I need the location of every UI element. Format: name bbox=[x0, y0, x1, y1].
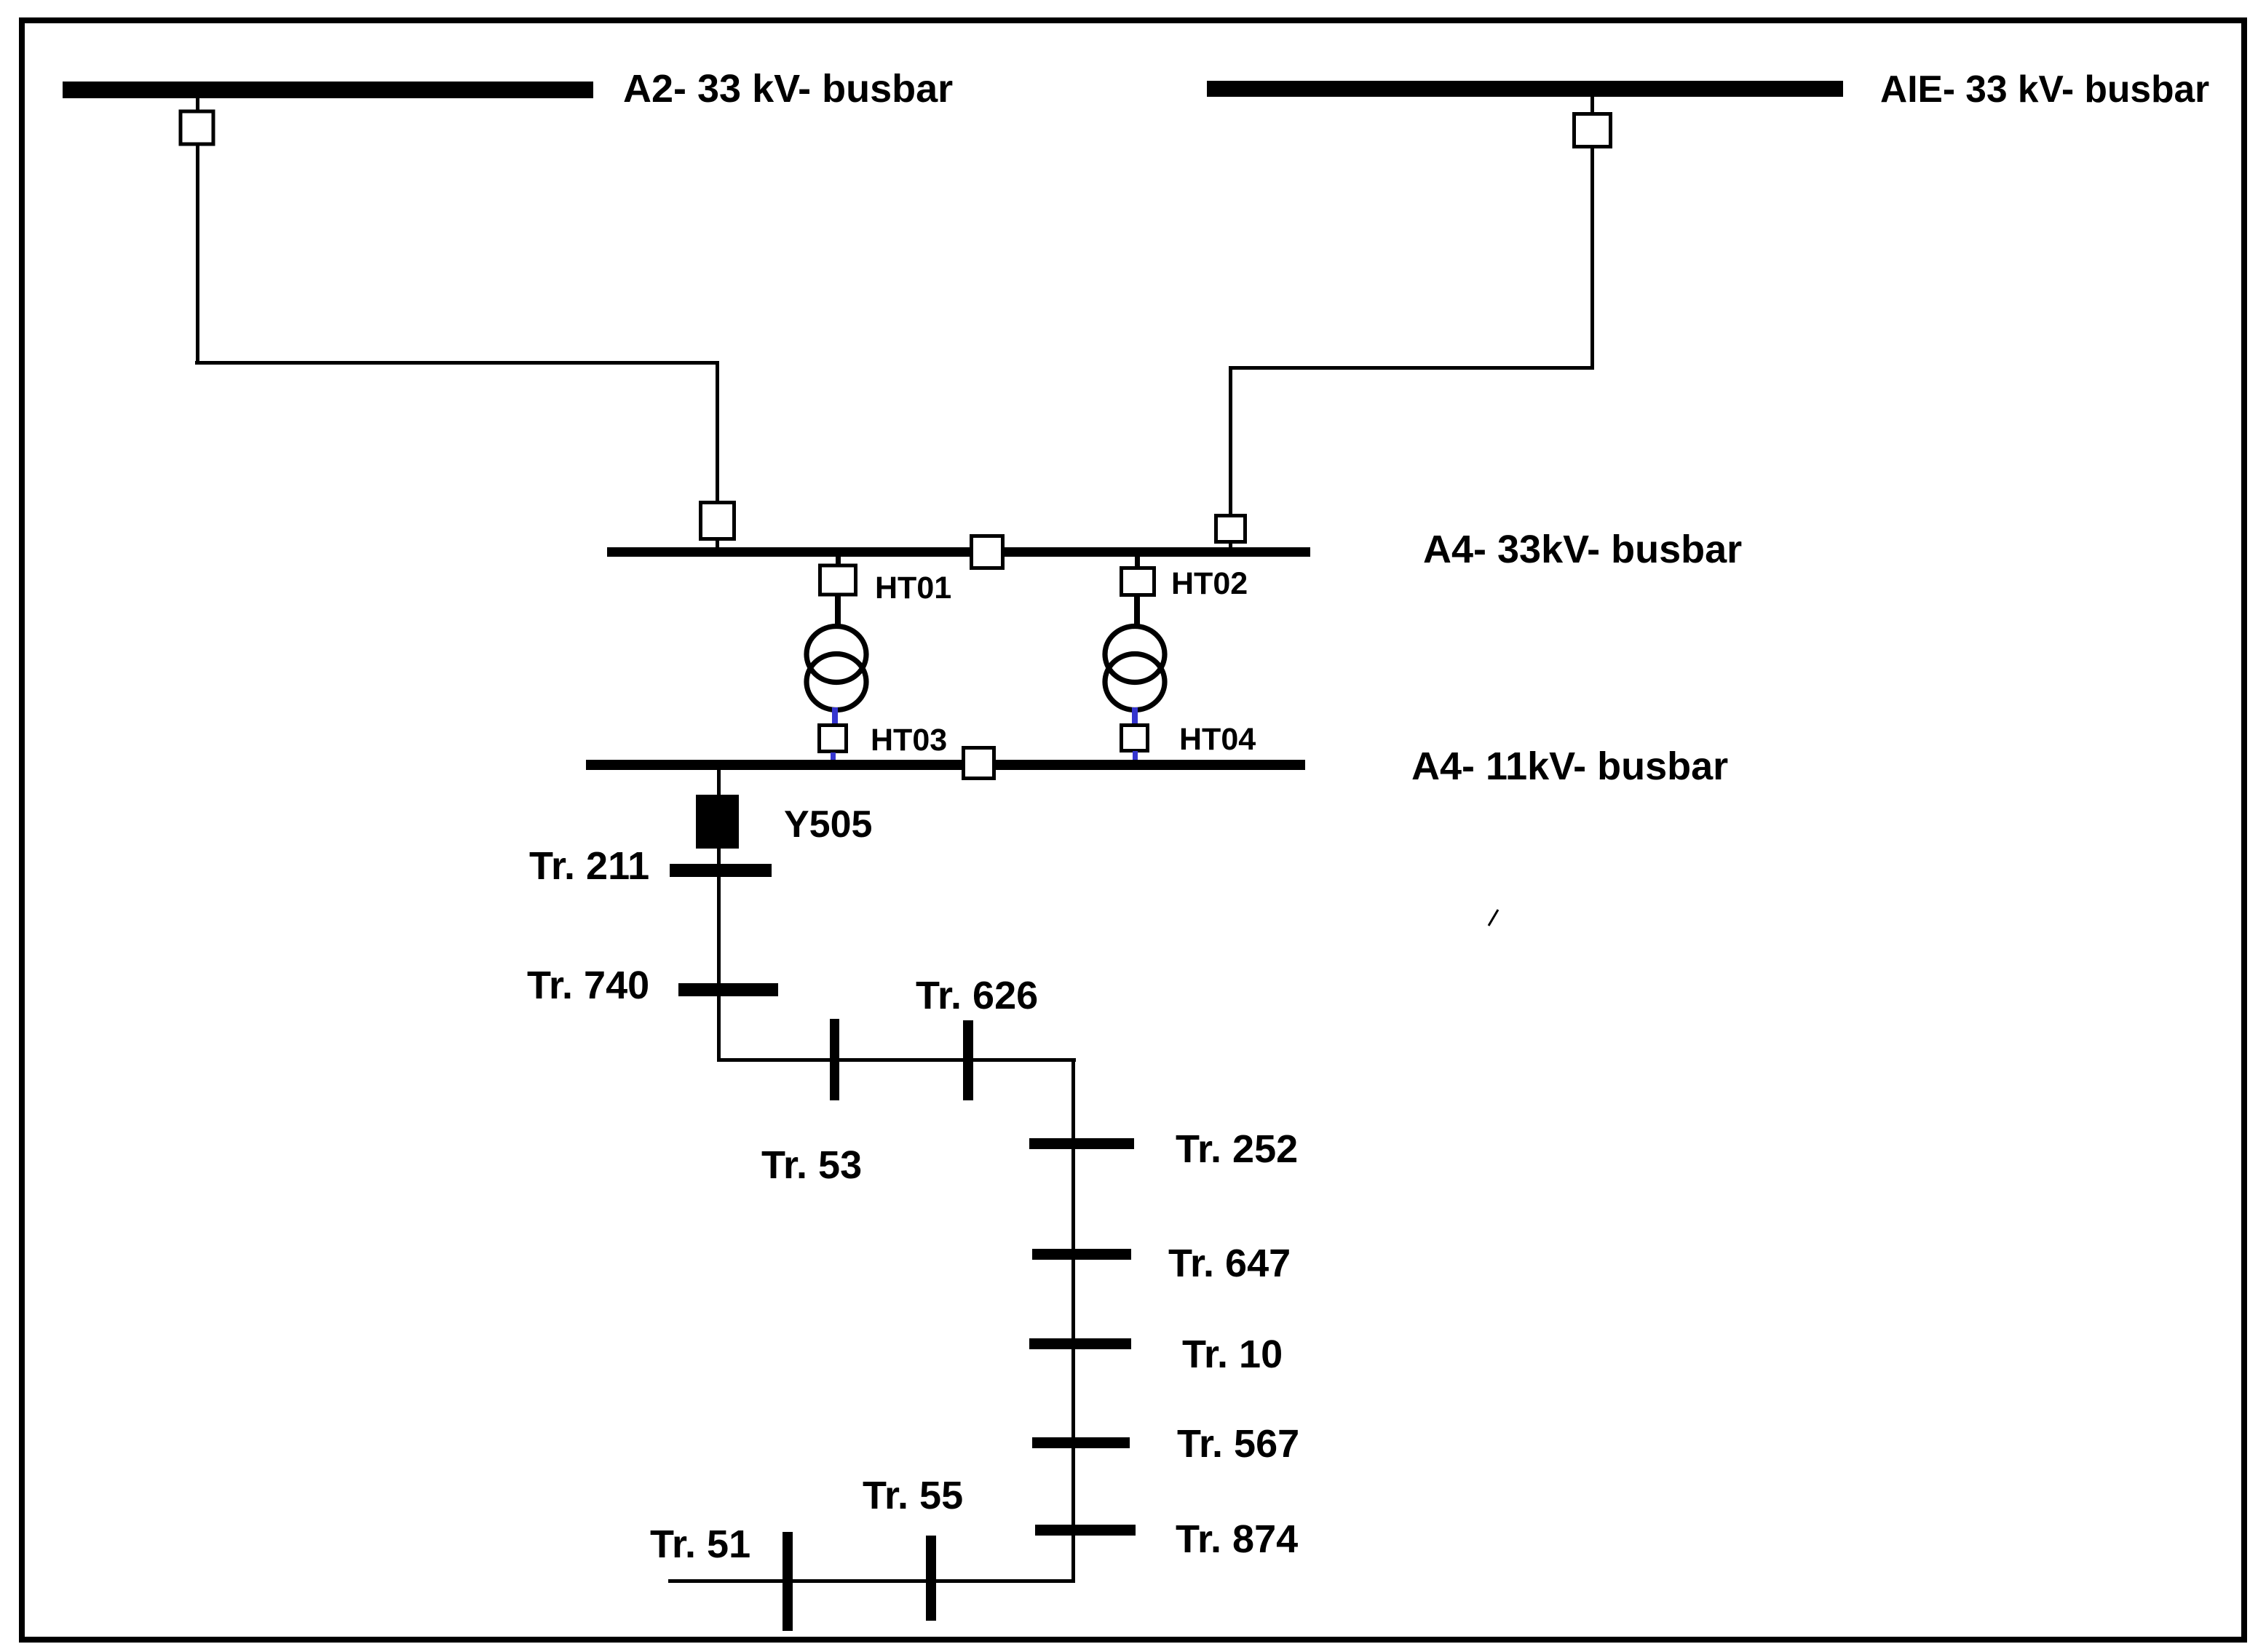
transformer tap Tr. 10 bbox=[1029, 1338, 1131, 1349]
svg-text:A4- 33kV- busbar: A4- 33kV- busbar bbox=[1423, 528, 1742, 571]
wire horizontal A2 branch bbox=[195, 361, 719, 365]
svg-text:HT04: HT04 bbox=[1179, 722, 1256, 757]
wire vertical down to A4 switch bbox=[716, 361, 719, 501]
transformer tap Tr. 211 bbox=[670, 864, 772, 877]
wire busbar to HT01 bbox=[836, 557, 841, 564]
wire switch to A4-33 busbar bbox=[716, 539, 719, 549]
switch HT03 bbox=[820, 726, 847, 752]
busbar A4- 33kV bbox=[607, 547, 1310, 557]
wire HT04 to 11kV busbar (blue) bbox=[1133, 751, 1138, 761]
wire HT01 to transformer T1 bbox=[835, 595, 841, 627]
wire vertical feeder run bbox=[1071, 1058, 1075, 1582]
transformer T1 upper winding bbox=[807, 627, 866, 683]
transformer tap Tr. 252 bbox=[1029, 1138, 1134, 1149]
switch HT02 bbox=[1122, 568, 1154, 595]
breaker Y505 (closed) bbox=[696, 795, 739, 849]
wire breaker down bbox=[1590, 146, 1594, 368]
svg-text:HT02: HT02 bbox=[1171, 566, 1248, 601]
svg-text:Y505: Y505 bbox=[784, 803, 872, 846]
wire T2 to HT04 (blue) bbox=[1132, 707, 1138, 725]
feeder wire from 11kV busbar bbox=[717, 770, 721, 1061]
switch square above A4-33 busbar (left) bbox=[701, 503, 734, 539]
wire horizontal AIE branch bbox=[1229, 366, 1594, 370]
svg-text:HT03: HT03 bbox=[871, 723, 947, 758]
wire breaker down bbox=[196, 144, 199, 363]
svg-text:A4- 11kV- busbar: A4- 11kV- busbar bbox=[1411, 744, 1728, 788]
breaker square on AIE feeder bbox=[1574, 114, 1611, 147]
transformer T2 upper winding bbox=[1105, 627, 1165, 683]
transformer tap Tr. 740 bbox=[678, 983, 778, 996]
svg-text:AIE- 33 kV- busbar: AIE- 33 kV- busbar bbox=[1880, 68, 2209, 110]
svg-text:A2- 33 kV- busbar: A2- 33 kV- busbar bbox=[623, 67, 953, 111]
stray mark bbox=[1489, 910, 1498, 926]
transformer tap Tr. 626 bbox=[963, 1020, 973, 1100]
wire vertical down to A4 switch (right) bbox=[1229, 366, 1232, 515]
transformer tap Tr. 567 bbox=[1032, 1437, 1130, 1448]
svg-text:HT01: HT01 bbox=[875, 571, 951, 605]
busbar A4- 11kV bbox=[586, 760, 1305, 770]
busbar AIE- 33 kV bbox=[1207, 81, 1843, 97]
transformer tap Tr. 51 bbox=[783, 1532, 793, 1631]
svg-text:Tr. 55: Tr. 55 bbox=[863, 1474, 963, 1517]
transformer tap Tr. 55 bbox=[926, 1536, 936, 1621]
transformer tap Tr. 647 bbox=[1032, 1249, 1131, 1260]
transformer tap Tr. 53 bbox=[830, 1019, 839, 1100]
wire A2 busbar to breaker bbox=[196, 98, 199, 110]
breaker square on A2 feeder bbox=[181, 111, 213, 144]
transformer tap Tr. 874 bbox=[1035, 1525, 1136, 1536]
switch HT01 bbox=[820, 565, 856, 595]
svg-text:Tr. 647: Tr. 647 bbox=[1168, 1242, 1291, 1285]
wire HT03 to 11kV busbar (blue) bbox=[831, 752, 836, 761]
svg-text:Tr. 567: Tr. 567 bbox=[1177, 1422, 1299, 1466]
svg-text:Tr. 53: Tr. 53 bbox=[761, 1143, 862, 1187]
wire HT02 to transformer T2 bbox=[1134, 595, 1140, 627]
switch square above A4-33 busbar (right) bbox=[1216, 516, 1245, 542]
transformer T1 lower winding bbox=[807, 654, 866, 710]
svg-text:Tr. 10: Tr. 10 bbox=[1182, 1333, 1283, 1376]
svg-text:Tr. 740: Tr. 740 bbox=[527, 964, 649, 1007]
wire horizontal feeder run bbox=[717, 1058, 1076, 1062]
svg-text:Tr. 252: Tr. 252 bbox=[1176, 1127, 1298, 1171]
svg-text:Tr. 51: Tr. 51 bbox=[650, 1522, 750, 1566]
transformer T2 lower winding bbox=[1105, 654, 1165, 710]
wire AIE busbar to breaker bbox=[1590, 97, 1594, 112]
wire busbar to HT02 bbox=[1135, 557, 1140, 568]
svg-text:Tr. 626: Tr. 626 bbox=[916, 974, 1038, 1017]
bus section square on A4-11 busbar bbox=[964, 748, 994, 779]
switch HT04 bbox=[1122, 726, 1148, 751]
wire switch to A4-33 busbar bbox=[1229, 541, 1232, 549]
svg-text:Tr. 874: Tr. 874 bbox=[1176, 1517, 1298, 1561]
wire T1 to HT03 (blue) bbox=[832, 707, 838, 725]
bus section square on A4-33 busbar bbox=[972, 536, 1003, 568]
svg-text:Tr. 211: Tr. 211 bbox=[529, 844, 649, 888]
wire bottom feeder run bbox=[668, 1579, 1075, 1583]
busbar A2- 33 kV bbox=[63, 82, 593, 98]
